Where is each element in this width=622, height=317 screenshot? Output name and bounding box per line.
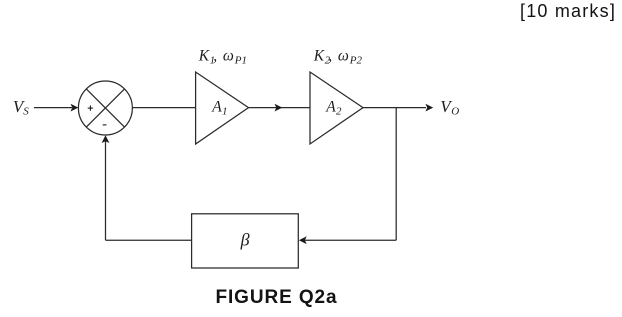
wire A2 to output Vo <box>363 107 426 109</box>
block beta <box>192 214 299 268</box>
svg-text:S: S <box>23 106 29 118</box>
svg-text:P1: P1 <box>234 54 247 66</box>
summing junction circle <box>78 81 132 135</box>
svg-text:A: A <box>211 99 222 116</box>
svg-text:ω: ω <box>338 48 349 65</box>
arrowhead output Vo <box>425 104 433 112</box>
wire feedback vertical right <box>395 108 397 241</box>
summing junction cross line 1 <box>86 89 124 127</box>
minus sign in summing junction <box>103 124 107 126</box>
svg-text:A: A <box>325 99 336 116</box>
wire A1 to A2 <box>249 107 311 109</box>
svg-text:K: K <box>198 48 210 65</box>
wire feedback vertical left up to summing junction <box>105 141 107 240</box>
svg-text:2: 2 <box>336 106 342 118</box>
wire summing junction to A1 <box>132 107 195 109</box>
summing junction cross line 2 <box>86 89 124 127</box>
svg-text:1: 1 <box>222 106 228 118</box>
wire beta box to left vertical <box>106 239 192 241</box>
op-amp A1 triangle <box>196 72 249 144</box>
wire feedback horizontal right to beta box <box>304 239 396 241</box>
svg-text:K: K <box>313 48 325 65</box>
op-amp A2 triangle <box>310 72 363 144</box>
svg-text:P2: P2 <box>349 54 363 66</box>
figure caption <box>0 287 553 309</box>
marks label <box>520 1 616 22</box>
arrowhead mid wire A1 to A2 <box>275 104 283 112</box>
arrowhead into summing junction bottom <box>102 135 110 143</box>
svg-text:,: , <box>328 48 332 65</box>
svg-text:,: , <box>213 48 217 65</box>
svg-text:β: β <box>240 230 250 250</box>
plus sign in summing junction <box>88 107 93 109</box>
arrowhead into summing junction <box>71 104 79 112</box>
arrowhead into beta box <box>299 236 307 244</box>
svg-text:O: O <box>451 106 459 118</box>
wire Vs input <box>34 107 72 109</box>
svg-text:ω: ω <box>223 48 234 65</box>
